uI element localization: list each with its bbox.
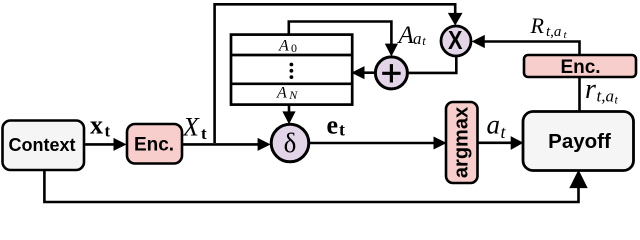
wire top loop X_t to multiplier [215,4,462,143]
wire Context to Enc with arrowhead [84,139,126,150]
node a_t label [487,110,507,143]
wire stack top to adder (A_at read) [289,22,397,56]
svg-text:R: R [530,13,545,38]
Context box [3,121,85,171]
wire stack bottom to delta with arrowhead [283,105,295,124]
svg-text:Enc.: Enc. [134,134,174,155]
multiplier circle X [441,25,471,56]
svg-text:A: A [278,38,289,55]
memory stack box [231,35,352,105]
delta circle [271,124,309,162]
svg-text:a: a [413,29,422,48]
wire Enc to delta with arrowhead [182,139,270,150]
wire Enc2 to multiplier (R reward) with arrowhead [473,36,580,55]
svg-text:A: A [397,22,415,49]
argmax box [446,102,478,183]
wire argmax to Payoff with arrowhead [478,137,523,149]
node x_t label [90,110,111,140]
svg-text:Enc.: Enc. [560,57,600,78]
svg-text:Payoff: Payoff [548,130,611,153]
svg-text:a: a [487,110,501,140]
wire bottom feedback Context to Payoff [44,170,587,202]
Enc box left [127,124,182,164]
svg-text:t: t [339,119,345,139]
svg-text:δ: δ [284,128,297,158]
svg-text:t: t [422,34,426,48]
svg-text:x: x [90,110,103,139]
svg-text:A: A [276,85,287,102]
svg-text:0: 0 [291,41,297,55]
wire adder to stack with arrowhead [353,67,375,79]
wire delta to argmax with arrowhead [309,137,446,148]
svg-text:N: N [288,88,298,102]
svg-text:t: t [201,124,207,143]
node A_0 label [278,38,297,55]
node r_t,at label [585,74,619,106]
node A_at label [397,22,427,49]
node R_t,at label [530,13,568,41]
svg-text:X: X [182,112,200,141]
svg-text:X: X [448,25,463,55]
node A_N label [276,85,298,102]
Payoff box [523,112,634,171]
svg-text:t,a: t,a [597,87,614,106]
svg-text:argmax: argmax [451,107,473,178]
vertical dots [290,63,294,79]
adder circle + [375,57,407,89]
node e_t label [327,111,346,140]
svg-text:Context: Context [9,135,76,155]
wire multiplier to adder [408,57,456,73]
svg-text:t: t [105,122,111,141]
wire Payoff to Enc2 [578,77,581,112]
svg-text:e: e [327,111,339,140]
node X_t label [182,112,207,143]
svg-text:r: r [585,74,596,105]
Enc box right [524,55,636,78]
svg-text:t,a: t,a [546,24,561,40]
